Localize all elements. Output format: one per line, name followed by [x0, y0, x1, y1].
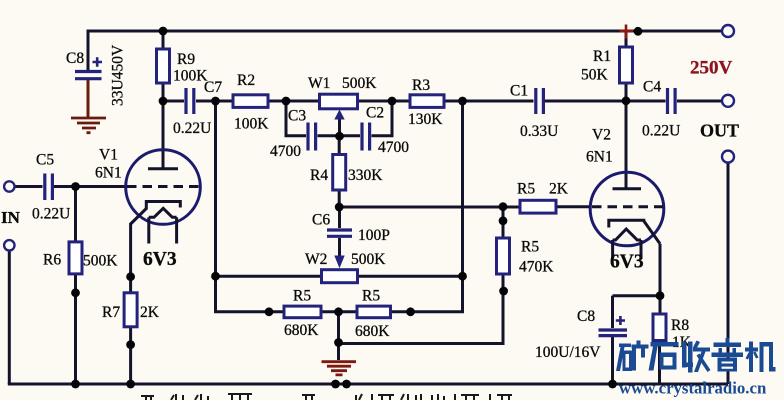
svg-text:C5: C5 — [36, 152, 54, 169]
wire R2 leads — [216, 100, 320, 103]
node W1/C2/R3 — [388, 97, 397, 106]
node R5-470K bottom — [499, 287, 508, 296]
node ground tee — [334, 338, 343, 347]
svg-text:OUT: OUT — [700, 121, 739, 141]
C8a maroon lower lead — [87, 80, 90, 117]
svg-text:IN: IN — [1, 208, 21, 227]
wire W2 left lead — [216, 275, 322, 278]
svg-text:500K: 500K — [351, 251, 386, 268]
wire C8b top lead — [611, 296, 614, 328]
svg-text:C2: C2 — [366, 105, 384, 122]
node top rail R1 — [634, 27, 643, 36]
V1 cathode — [146, 202, 180, 210]
WATERMARK — [616, 338, 776, 373]
resistor R4 330K — [333, 155, 346, 191]
node 680K left lead — [265, 307, 274, 316]
svg-text:C7: C7 — [204, 79, 222, 96]
svg-text:W1: W1 — [308, 75, 330, 92]
node R7 top — [126, 272, 135, 281]
wire 680K row middle — [321, 310, 357, 313]
wire C5 to grid node — [54, 185, 76, 188]
svg-text:0.22U: 0.22U — [173, 120, 211, 137]
W1 wiper arrow — [334, 110, 344, 269]
wire C3 branch down — [286, 101, 306, 136]
svg-text:C3: C3 — [288, 108, 306, 125]
svg-text:0.22U: 0.22U — [32, 206, 70, 223]
wire cathode node to C8b — [613, 294, 661, 297]
wire bottom ground rail — [8, 383, 728, 386]
ground center — [322, 362, 357, 375]
wire C6 top stem — [338, 207, 341, 228]
maroon R1 junction cross — [620, 25, 634, 39]
svg-text:0.33U: 0.33U — [520, 123, 558, 140]
tube V2 6N1 envelope — [590, 172, 664, 246]
svg-text:C1: C1 — [510, 83, 528, 100]
node C7 out — [211, 97, 220, 106]
svg-text:R4: R4 — [310, 167, 328, 184]
node R7 bottom — [126, 340, 135, 349]
terminal OUT gnd — [722, 151, 734, 163]
node rail gnd b — [342, 380, 351, 389]
wire V1 plate line — [162, 101, 165, 169]
wire OUT lower terminal down — [727, 163, 730, 385]
wire node R3 down to W2 right and 680K row — [391, 101, 463, 312]
svg-text:V2: V2 — [592, 127, 611, 144]
svg-text:0.22U: 0.22U — [642, 123, 680, 140]
caption fragments bottom edge — [141, 394, 512, 400]
svg-text:C8: C8 — [66, 50, 84, 67]
node V2 cathode — [656, 291, 665, 300]
terminal IN gnd — [4, 240, 14, 250]
capacitor C3 4700 — [308, 123, 316, 151]
node plate V2 — [622, 96, 631, 105]
potentiometer W1 500K body — [320, 94, 358, 109]
capacitor C1 0.33U — [536, 88, 544, 114]
watermark glyph kuang — [619, 344, 631, 348]
node top rail R9 — [159, 27, 168, 36]
svg-text:100K: 100K — [173, 68, 208, 85]
node rail R6 — [71, 380, 80, 389]
svg-text:4700: 4700 — [270, 143, 301, 160]
svg-text:R5: R5 — [517, 181, 535, 198]
node R5-2K grid low — [499, 216, 508, 225]
wire C4 right to OUT terminal — [677, 100, 722, 103]
svg-text:www.crystalradio.cn: www.crystalradio.cn — [619, 379, 767, 398]
node R2/C3/W1 — [282, 97, 291, 106]
wire C8a top lead — [87, 30, 90, 71]
wire C3 to center node — [318, 134, 361, 137]
V2 cathode lead diagonal — [643, 220, 660, 243]
resistor R5 680K left — [284, 306, 321, 318]
node W2 right — [458, 272, 467, 281]
node R4/C6/row — [335, 203, 344, 212]
node R9/C7/plate — [159, 97, 168, 106]
ground C8a — [71, 118, 106, 133]
wire top rail — [88, 30, 721, 33]
svg-text:680K: 680K — [284, 322, 319, 339]
resistor R2 100K — [233, 95, 268, 108]
svg-text:R7: R7 — [102, 304, 120, 321]
capacitor C8a plus sign — [93, 57, 626, 325]
tube V1 internals — [127, 169, 200, 244]
capacitor C2 4700 — [362, 123, 370, 151]
V1 plate bar — [148, 167, 178, 170]
svg-text:6N1: 6N1 — [586, 149, 613, 166]
wire C7 left — [163, 100, 184, 103]
terminal OUT hot — [722, 95, 734, 107]
svg-text:500K: 500K — [83, 253, 118, 270]
V1 cathode lead diagonal — [131, 209, 147, 225]
svg-text:2K: 2K — [549, 181, 569, 198]
wire R3 right lead — [444, 100, 534, 103]
node rail gnd a — [331, 380, 340, 389]
wire V2 plate line — [625, 101, 628, 189]
resistor R1 50K — [620, 47, 633, 83]
wire mid row y207 from R4 node to R5-2K — [339, 206, 520, 209]
wire R7 bottom lead — [129, 327, 132, 384]
svg-text:2K: 2K — [140, 304, 160, 321]
watermark glyph yin — [726, 338, 730, 344]
svg-text:W2: W2 — [305, 251, 327, 268]
svg-text:R2: R2 — [237, 72, 255, 89]
wire W2 right lead — [358, 275, 463, 278]
node rail R7 — [126, 380, 135, 389]
wire node C7 down to W2 left — [216, 101, 285, 312]
svg-text:100U/16V: 100U/16V — [535, 344, 601, 361]
svg-text:130K: 130K — [408, 111, 443, 128]
potentiometer W2 500K body — [322, 270, 358, 283]
node grid V1 — [71, 182, 80, 191]
tube V1 6N1 envelope — [126, 150, 201, 225]
terminal 250V — [722, 25, 734, 37]
wire R8 bottom lead — [658, 341, 661, 385]
watermark glyph ji — [745, 348, 758, 352]
V2 heater chevron — [613, 229, 641, 240]
resistor R3 130K — [410, 95, 444, 108]
node rail C8b — [608, 380, 617, 389]
W2 wiper arrow — [334, 256, 344, 269]
svg-text:100P: 100P — [358, 227, 390, 244]
node R3/C1 — [458, 97, 467, 106]
wire V1 cathode down to R7 — [129, 223, 132, 293]
svg-text:330K: 330K — [348, 167, 383, 184]
wire IN to C5 — [15, 185, 43, 188]
wire C6 bottom to W2 wiper — [338, 238, 341, 256]
svg-text:6N1: 6N1 — [95, 165, 122, 182]
svg-text:680K: 680K — [355, 323, 390, 340]
wire C2 right up to W1 right — [372, 101, 393, 136]
svg-text:R5: R5 — [293, 288, 311, 305]
wire R6 leads — [74, 187, 77, 385]
wire R4 leads — [338, 136, 341, 208]
svg-text:R9: R9 — [177, 51, 195, 68]
svg-text:C8: C8 — [577, 308, 595, 325]
wire R9 leads — [162, 31, 165, 101]
capacitor C6 100P — [327, 230, 352, 236]
wire IN lower terminal down — [8, 251, 11, 385]
capacitor C8b plates — [599, 330, 628, 336]
wire R5-470K top leads — [502, 207, 505, 238]
watermark glyph shi — [651, 342, 679, 347]
svg-text:500K: 500K — [342, 75, 377, 92]
svg-text:470K: 470K — [519, 259, 554, 276]
wire W1 right lead — [358, 100, 411, 103]
wire grid node to V1 — [76, 185, 127, 188]
svg-text:R3: R3 — [412, 77, 430, 94]
svg-text:250V: 250V — [690, 58, 733, 79]
watermark glyph shou — [682, 342, 687, 368]
wire W1 wiper stem — [338, 117, 341, 137]
V1 heater pins — [149, 217, 177, 243]
wire R5-2K right to V2 grid — [556, 205, 591, 208]
node W2 left — [211, 272, 220, 281]
resistor R5 2K — [520, 200, 556, 213]
V2 plate bar — [613, 187, 642, 190]
capacitor C4 0.22U — [668, 88, 676, 114]
node C3/C2/wiper — [335, 132, 344, 141]
svg-text:V1: V1 — [99, 147, 118, 164]
svg-text:R5: R5 — [521, 239, 539, 256]
capacitor plates — [45, 72, 675, 336]
svg-text:C4: C4 — [643, 79, 661, 96]
wire V2 cathode down — [659, 244, 662, 314]
node 680K right — [406, 307, 415, 316]
resistor R6 500K — [69, 242, 82, 274]
capacitor C8b plus sign — [616, 316, 625, 325]
node R6 bottom — [71, 288, 80, 297]
wire C1 right to plate node — [545, 100, 666, 103]
wire C8b bottom lead — [611, 337, 614, 384]
terminal IN hot — [4, 181, 14, 191]
svg-text:R8: R8 — [671, 317, 689, 334]
V1 grid dashes — [127, 185, 200, 188]
wire C7 right to node — [196, 100, 216, 103]
svg-text:100K: 100K — [234, 116, 269, 133]
tube V2 internals — [592, 189, 663, 259]
glyph inner whites — [626, 354, 630, 368]
wire R5-470K bottom to ground row — [339, 274, 504, 344]
svg-text:C6: C6 — [312, 212, 330, 229]
node between 680Ks — [334, 307, 343, 316]
resistor R5 470K — [497, 238, 510, 274]
V1 heater chevron — [149, 208, 177, 217]
capacitor C5 0.22U — [45, 174, 53, 201]
svg-text:R6: R6 — [43, 252, 61, 269]
node R5-2K grid top — [499, 202, 508, 211]
svg-text:50K: 50K — [581, 67, 609, 84]
resistor R7 2K — [124, 293, 137, 327]
V2 cathode — [609, 220, 644, 227]
svg-text:6V3: 6V3 — [143, 249, 177, 270]
resistor R5 680K right — [357, 306, 391, 318]
svg-text:33U450V: 33U450V — [110, 44, 127, 106]
svg-text:6V3: 6V3 — [610, 252, 644, 273]
wire R1 leads — [625, 31, 628, 101]
wire mid ground stem — [337, 312, 340, 360]
V2 grid dashes — [592, 205, 663, 208]
resistor R8 1K — [653, 314, 666, 341]
V2 heater pins — [613, 240, 641, 259]
capacitor C8a plates — [75, 72, 102, 79]
svg-text:4700: 4700 — [378, 139, 409, 156]
capacitor C7 0.22U — [186, 88, 194, 114]
svg-text:R1: R1 — [593, 48, 611, 65]
svg-text:R5: R5 — [362, 288, 380, 305]
resistor R9 100K — [157, 49, 170, 83]
